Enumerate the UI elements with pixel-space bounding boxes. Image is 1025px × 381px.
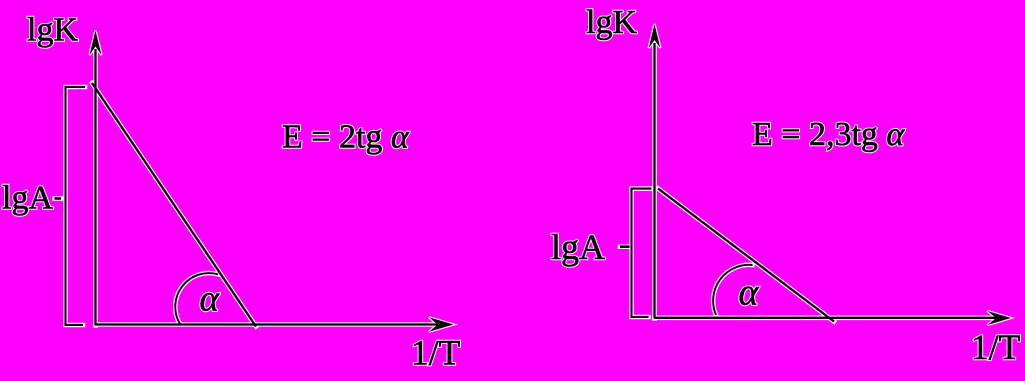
svg-text:E = 2tg α: E = 2tg α xyxy=(282,119,410,156)
svg-text:lgK: lgK xyxy=(586,4,637,41)
svg-text:1/T: 1/T xyxy=(411,333,461,373)
svg-text:lgA: lgA xyxy=(551,227,605,267)
svg-text:1/T: 1/T xyxy=(971,327,1021,367)
svg-text:α: α xyxy=(739,272,760,314)
svg-text:E = 2,3tg α: E = 2,3tg α xyxy=(752,116,905,153)
svg-text:α: α xyxy=(200,279,221,320)
svg-text:lgA: lgA xyxy=(2,180,53,217)
svg-text:lgK: lgK xyxy=(27,11,78,48)
